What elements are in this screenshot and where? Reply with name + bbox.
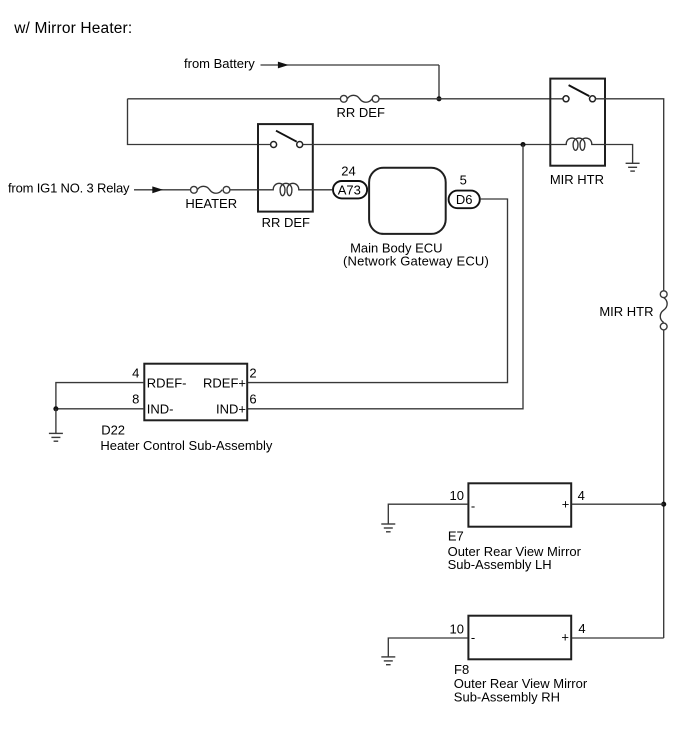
- node coil branch junction: [520, 142, 525, 147]
- wire HEATER to relay coil: [230, 189, 258, 191]
- svg-text:MIR HTR: MIR HTR: [550, 172, 604, 187]
- svg-text:+: +: [562, 497, 570, 512]
- wire main bus y=99 left segment: [128, 98, 341, 100]
- wire MIR HTR switch output: [596, 99, 664, 291]
- svg-text:5: 5: [460, 173, 467, 188]
- heater control D22 box: [144, 364, 247, 421]
- svg-text:from IG1 NO. 3 Relay: from IG1 NO. 3 Relay: [8, 181, 130, 196]
- wire D6 to RDEF+: [247, 199, 507, 383]
- relay MIR HTR switch right contact: [590, 96, 596, 102]
- wire E7 minus to ground: [388, 504, 468, 524]
- arrowhead battery: [278, 62, 289, 69]
- svg-text:D22: D22: [101, 422, 125, 437]
- wire F8 plus: [572, 637, 664, 639]
- svg-text:IND-: IND-: [147, 401, 174, 416]
- svg-text:24: 24: [341, 164, 355, 179]
- fuse RR DEF left terminal: [340, 95, 347, 102]
- ground MIR HTR coil: [626, 163, 640, 171]
- svg-text:IND+: IND+: [216, 401, 246, 416]
- wire battery feed horizontal: [261, 64, 440, 66]
- wire F8 minus to ground: [388, 638, 468, 657]
- svg-text:8: 8: [132, 392, 139, 407]
- svg-text:Sub-Assembly RH: Sub-Assembly RH: [454, 690, 560, 705]
- svg-text:(Network Gateway ECU): (Network Gateway ECU): [343, 253, 489, 268]
- wire switch output to MIR HTR coil: [303, 144, 551, 146]
- relay RR DEF box: [258, 124, 313, 212]
- ground F8: [381, 657, 395, 665]
- fuse MIR HTR bottom terminal: [660, 323, 667, 330]
- svg-text:RR DEF: RR DEF: [337, 105, 385, 120]
- svg-text:E7: E7: [448, 529, 464, 544]
- arrowhead IG1: [152, 186, 163, 193]
- svg-text:4: 4: [578, 488, 585, 503]
- fuse RR DEF wave: [347, 95, 372, 102]
- svg-text:4: 4: [578, 621, 585, 636]
- relay MIR HTR box: [550, 79, 605, 166]
- svg-text:-: -: [471, 499, 475, 514]
- fuse HEATER right terminal: [223, 186, 230, 193]
- ground E7: [381, 524, 395, 532]
- ground D22: [49, 433, 63, 441]
- mirror F8 box: [468, 616, 571, 660]
- fuse RR DEF right terminal: [372, 95, 379, 102]
- fuse MIR HTR wave: [660, 298, 667, 323]
- box Main Body ECU: [369, 168, 446, 234]
- svg-text:10: 10: [450, 488, 464, 503]
- relay MIR HTR coil: [550, 138, 605, 150]
- relay RR DEF switch blade: [276, 131, 297, 142]
- wire battery feed vertical: [438, 65, 440, 99]
- svg-text:Sub-Assembly LH: Sub-Assembly LH: [448, 557, 552, 572]
- fuse HEATER wave: [197, 186, 222, 193]
- fuse MIR HTR top terminal: [660, 291, 667, 298]
- connector D6: [449, 191, 480, 209]
- svg-text:D6: D6: [456, 192, 473, 207]
- svg-text:A73: A73: [338, 183, 361, 198]
- node D22 ground junction: [53, 406, 58, 411]
- svg-text:w/ Mirror Heater:: w/ Mirror Heater:: [13, 20, 132, 37]
- svg-text:MIR HTR: MIR HTR: [599, 304, 653, 319]
- svg-text:from Battery: from Battery: [184, 56, 255, 71]
- wire IG1 feed: [134, 189, 191, 191]
- fuse HEATER left terminal: [191, 186, 198, 193]
- wire RDEF- to ground: [56, 383, 144, 409]
- mirror E7 box: [468, 483, 571, 526]
- relay RR DEF coil: [258, 183, 332, 195]
- relay RR DEF switch left contact: [271, 142, 277, 148]
- connector A73: [333, 181, 367, 198]
- wire D22 ground stem: [55, 409, 57, 433]
- svg-text:HEATER: HEATER: [185, 196, 237, 211]
- wire MIR HTR coil to ground: [605, 145, 633, 164]
- node E7 junction: [661, 502, 666, 507]
- wire right bus lower: [663, 330, 665, 638]
- svg-text:10: 10: [450, 621, 464, 636]
- relay RR DEF switch right contact: [297, 142, 303, 148]
- svg-text:+: +: [561, 630, 569, 645]
- svg-text:-: -: [471, 630, 475, 645]
- wire E7 plus: [572, 503, 664, 505]
- svg-text:F8: F8: [454, 662, 469, 677]
- relay MIR HTR switch blade: [569, 85, 590, 96]
- svg-text:RDEF+: RDEF+: [203, 375, 246, 390]
- wire IND-: [56, 408, 144, 410]
- wire main bus y=99 right segment: [379, 98, 563, 100]
- svg-text:4: 4: [132, 366, 139, 381]
- wire left drop: [128, 99, 271, 145]
- svg-text:RR DEF: RR DEF: [262, 215, 310, 230]
- wire IND+ riser: [247, 145, 523, 409]
- node battery junction: [436, 96, 441, 101]
- svg-text:2: 2: [249, 366, 256, 381]
- relay MIR HTR switch left contact: [563, 96, 569, 102]
- svg-text:RDEF-: RDEF-: [147, 375, 187, 390]
- svg-text:Heater Control Sub-Assembly: Heater Control Sub-Assembly: [100, 438, 272, 453]
- svg-text:6: 6: [249, 392, 256, 407]
